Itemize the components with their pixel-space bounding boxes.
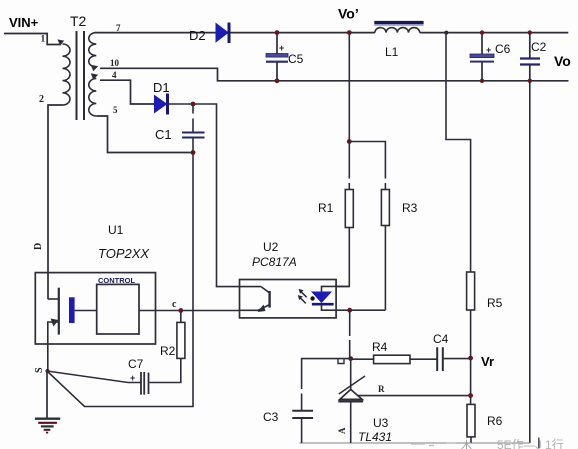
capacitor C3 <box>292 411 313 443</box>
svg-text:7: 7 <box>116 23 121 33</box>
svg-text:5E作—J 1行: 5E作—J 1行 <box>497 438 564 449</box>
svg-text:1: 1 <box>41 35 46 45</box>
svg-text:C5: C5 <box>288 52 304 66</box>
junction dot LED cathode node <box>347 308 352 313</box>
junction dot C1 bottom <box>191 150 196 155</box>
svg-text:R2: R2 <box>160 344 176 358</box>
svg-text:4: 4 <box>112 70 117 80</box>
wire bottom secondary ground rail <box>299 442 529 444</box>
junction dot C1 top <box>191 102 196 107</box>
junction dot divider tap <box>347 139 352 144</box>
junction S pin <box>46 369 50 373</box>
svg-text:c: c <box>172 299 177 310</box>
wire VIN+ input to pin 1 <box>4 34 60 45</box>
transformer T2 primary winding <box>63 44 71 105</box>
wire pin 10 return <box>100 68 569 81</box>
wire bias return (C1 bottom down to source loop) <box>47 153 193 407</box>
pin 1 arrow <box>57 39 64 45</box>
wire tap to R3 <box>349 142 385 190</box>
wire R5 feed from output rail <box>446 33 471 272</box>
svg-text:R1: R1 <box>318 201 334 215</box>
wire C4 to Vr node <box>443 358 471 360</box>
wire Vr down to R6 <box>470 358 472 404</box>
svg-text:+: + <box>279 43 284 53</box>
resistor R2 <box>177 322 185 358</box>
svg-text:R5: R5 <box>487 296 503 310</box>
wire R3 to LED cathode line <box>384 226 386 311</box>
inductor L1 <box>374 23 423 33</box>
diode D2 <box>216 23 229 44</box>
wire CONTROL to c pin node <box>139 310 240 312</box>
svg-text:U3: U3 <box>373 416 389 430</box>
junction dot TL431 cathode node <box>348 356 353 361</box>
wire C2 down right side rail <box>529 81 531 443</box>
shunt regulator U3 TL431 <box>338 359 470 443</box>
svg-text:R6: R6 <box>487 414 503 428</box>
svg-text:S: S <box>34 367 45 373</box>
wire R6 to bottom rail <box>470 437 472 443</box>
junction dot C6 bottom <box>480 79 484 83</box>
optocoupler U2 box <box>240 280 337 318</box>
junction dot C6 top <box>480 30 484 34</box>
svg-text:Vr: Vr <box>481 354 494 369</box>
svg-text:U2: U2 <box>263 240 279 254</box>
capacitor C2 <box>520 33 540 81</box>
transformer core <box>77 31 85 120</box>
svg-text:木: 木 <box>461 439 472 449</box>
svg-text:10: 10 <box>110 58 120 68</box>
svg-text:D1: D1 <box>153 80 170 95</box>
svg-text:D2: D2 <box>189 28 206 43</box>
svg-text:D: D <box>33 243 44 250</box>
ground <box>35 371 60 433</box>
wire gate to CONTROL <box>75 310 97 312</box>
resistor R1 <box>345 190 353 228</box>
wire LED cathode node down to TL431 <box>349 310 351 358</box>
svg-text:5: 5 <box>113 105 118 115</box>
junction dot Vo' <box>347 30 352 35</box>
junction dot ref node <box>468 393 473 398</box>
MOSFET gate bar <box>69 297 75 323</box>
wire S to C7 diagonal <box>47 371 141 383</box>
svg-text:L1: L1 <box>385 45 399 59</box>
svg-text:+: + <box>486 45 491 55</box>
wire Vo' tap down to divider <box>348 33 350 142</box>
svg-text:R: R <box>378 384 385 394</box>
capacitor C4 <box>437 347 443 371</box>
opto LED <box>310 286 385 310</box>
wire pin 7 output rail to D2 <box>95 32 216 34</box>
junction dot R5 feed <box>444 31 448 35</box>
CONTROL block <box>97 284 139 334</box>
junction dot C5 top <box>275 30 280 35</box>
svg-text:C3: C3 <box>263 410 279 424</box>
svg-text:C2: C2 <box>531 40 547 54</box>
junction dot c pin <box>178 308 183 313</box>
opto phototransistor <box>240 287 270 312</box>
junction dot C2 top <box>528 30 532 34</box>
capacitor C6 <box>470 33 494 81</box>
capacitor C1 <box>182 104 205 153</box>
svg-text:+: + <box>130 373 135 383</box>
svg-text:PC817A: PC817A <box>252 255 297 269</box>
capacitor C7 <box>130 372 149 395</box>
wire pin 5 to C1 bottom <box>96 116 193 153</box>
wire R1 to opto LED anode <box>336 228 349 287</box>
svg-text:Vo’: Vo’ <box>338 6 359 22</box>
pin 4 arrow <box>91 73 98 79</box>
resistor R5 <box>467 272 475 310</box>
svg-text:C4: C4 <box>433 332 449 346</box>
wire R4 to C4 <box>410 358 437 360</box>
svg-text:CONTROL: CONTROL <box>98 276 135 285</box>
MOSFET inside U1 <box>48 288 59 371</box>
svg-text:Vo: Vo <box>554 53 571 69</box>
capacitor C5 <box>266 33 288 81</box>
diode D1 <box>155 94 168 115</box>
transformer secondary winding bottom (pins 4-5) <box>89 79 96 117</box>
svg-text:C7: C7 <box>128 357 144 371</box>
svg-text:C6: C6 <box>495 42 511 56</box>
svg-text:R4: R4 <box>372 340 388 354</box>
wire cathode node to R4 <box>351 358 374 360</box>
transformer secondary winding top (pins 7-10) <box>89 33 96 68</box>
opto LED light arrows <box>298 289 307 304</box>
wire D1 cathode to collector drop <box>169 104 261 287</box>
svg-text:T2: T2 <box>70 13 87 29</box>
wire pin 4 to D1 <box>100 80 155 104</box>
wire pin 2 to drain rail <box>48 105 63 299</box>
wire c node to R2 <box>180 311 182 323</box>
wire R2 to C7 <box>150 358 181 382</box>
wire cathode node to C3 <box>302 359 351 411</box>
svg-text:TOP2XX: TOP2XX <box>98 246 150 261</box>
wire tap to R1 <box>348 142 350 190</box>
resistor R4 <box>374 355 410 363</box>
wire R5 to Vr node <box>470 310 472 358</box>
junction dot Vr <box>468 356 473 361</box>
cathode pin marker K <box>338 359 344 364</box>
junction dot C5 bottom <box>275 78 280 83</box>
wire D2 cathode to Vo' rail <box>231 32 375 34</box>
pin 10 arrow <box>91 65 98 71</box>
svg-text:VIN+: VIN+ <box>9 15 39 30</box>
wire L1 to output right <box>420 32 569 34</box>
resistor R6 <box>467 404 475 437</box>
svg-text:U1: U1 <box>108 223 124 237</box>
junction dot C2 bottom <box>528 79 532 83</box>
resistor R3 <box>381 190 389 226</box>
svg-text:2: 2 <box>39 94 44 105</box>
svg-text:R3: R3 <box>402 201 418 215</box>
svg-text:TL431: TL431 <box>358 430 392 444</box>
IC U1 box <box>35 273 155 344</box>
lead break artifacts <box>192 114 387 394</box>
svg-text:A: A <box>337 427 347 434</box>
svg-text:C1: C1 <box>155 127 172 142</box>
